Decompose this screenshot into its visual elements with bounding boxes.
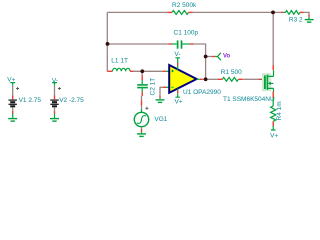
transistor T1 (NMOS) xyxy=(262,70,274,91)
junction: C2 tap on input wire xyxy=(140,69,144,73)
ground (VG1) xyxy=(137,132,146,136)
junction: Vo tap xyxy=(204,55,208,59)
wire: L1 to op-amp +input xyxy=(134,70,163,72)
svg-text:Vo: Vo xyxy=(223,54,231,60)
inductor L1 xyxy=(107,68,133,71)
svg-text:C1 100p: C1 100p xyxy=(174,29,199,36)
wire: R3 to ground corner xyxy=(304,12,309,14)
wire: C2 to VG1 xyxy=(141,96,143,100)
op-amp bottom power pin V+ xyxy=(175,89,180,98)
resistor R4 xyxy=(271,106,276,130)
resistor R1 xyxy=(218,77,243,81)
capacitor C1 xyxy=(168,40,193,48)
svg-text:C2 1T: C2 1T xyxy=(150,78,157,96)
wire: top horizontal net (feedback rail) xyxy=(107,11,273,13)
ground (R3) xyxy=(305,17,314,22)
resistor R3 xyxy=(273,11,304,15)
junction: output node xyxy=(204,77,208,81)
svg-text:R3 2: R3 2 xyxy=(289,17,303,24)
wire: T1 drain up to top rail xyxy=(272,65,274,70)
svg-text:L1 1T: L1 1T xyxy=(111,58,128,65)
op-amp top power pin V- xyxy=(175,58,180,70)
wire: op-amp output xyxy=(197,78,200,80)
svg-text:R4 1m: R4 1m xyxy=(276,101,283,120)
ground (V1) xyxy=(8,114,17,122)
junction: C1 branch on left rail xyxy=(106,42,110,46)
wire: C1 branch horizontal xyxy=(107,43,168,45)
svg-text:VG1: VG1 xyxy=(154,116,167,123)
node Vo tag xyxy=(215,53,221,60)
node Vo tap wire xyxy=(206,56,212,58)
wire: left vertical rail xyxy=(106,12,108,71)
svg-text:R1 500: R1 500 xyxy=(221,69,242,76)
voltage generator VG1 xyxy=(134,107,148,127)
wire: VG1 to ground xyxy=(141,127,143,129)
ground (op-amp -input) xyxy=(156,98,165,103)
resistor R2 xyxy=(168,11,193,15)
svg-text:T1 SSM6K504NU: T1 SSM6K504NU xyxy=(223,96,275,103)
wire: -input to ground xyxy=(166,86,169,88)
svg-text:V-: V- xyxy=(52,77,58,84)
wire: T1 source to R4 xyxy=(272,92,274,98)
battery V2 xyxy=(50,83,61,114)
svg-text:V+: V+ xyxy=(270,132,278,139)
svg-text:V-: V- xyxy=(174,51,180,58)
svg-text:V1 2.75: V1 2.75 xyxy=(19,97,42,104)
svg-text:U1 OPA2990: U1 OPA2990 xyxy=(183,89,221,96)
capacitor C2 xyxy=(137,71,148,96)
wire: R1 to T1 gate xyxy=(243,78,259,80)
svg-text:V+: V+ xyxy=(175,99,183,106)
wire: C1 to output node (corner down) xyxy=(193,44,205,79)
battery V1 xyxy=(9,83,20,114)
svg-text:V2 -2.75: V2 -2.75 xyxy=(59,97,84,104)
ground (V2) xyxy=(50,114,59,122)
svg-text:V+: V+ xyxy=(7,76,15,83)
op-amp U1 xyxy=(169,65,196,93)
junction: drain to top rail xyxy=(271,11,275,15)
svg-text:R2 500k: R2 500k xyxy=(172,2,197,9)
